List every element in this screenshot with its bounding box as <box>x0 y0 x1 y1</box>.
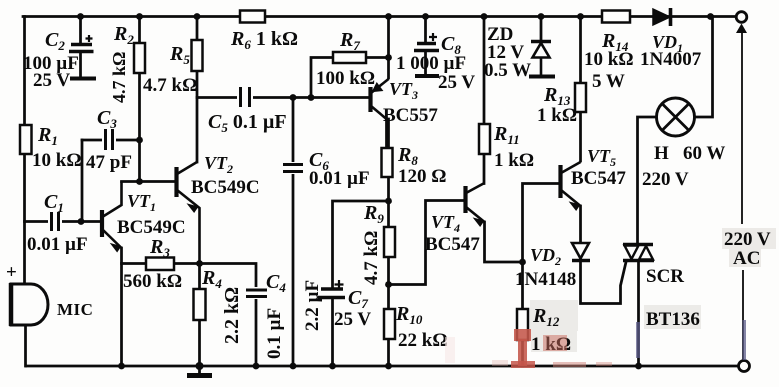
wire R11 branch <box>483 17 486 184</box>
svg-text:H 60 W: H 60 W <box>654 143 725 164</box>
wire C3 to base <box>81 140 84 222</box>
wire R4 branch <box>198 264 201 367</box>
transistor VT2 BC549C <box>177 153 260 264</box>
svg-text:25 V: 25 V <box>33 70 70 91</box>
svg-text:AC: AC <box>733 248 760 269</box>
wire left rail <box>23 17 26 285</box>
svg-text:22 kΩ: 22 kΩ <box>398 330 448 351</box>
svg-text:4.7 kΩ: 4.7 kΩ <box>109 52 129 103</box>
resistor R9 4.7k <box>361 202 395 285</box>
svg-text:1N4007: 1N4007 <box>640 49 702 70</box>
wire VT5 base <box>523 184 561 263</box>
resistor R1 10k <box>20 124 82 171</box>
wire C7 loop <box>333 201 389 366</box>
wire left rail below MIC <box>24 325 27 366</box>
svg-text:R6 1 kΩ: R6 1 kΩ <box>230 28 298 52</box>
svg-text:BC549C: BC549C <box>191 177 260 198</box>
svg-text:0.5 W: 0.5 W <box>484 60 531 81</box>
label 220V AC right <box>722 228 776 269</box>
wire zener branch <box>540 17 543 42</box>
diode VD1 1N4007 (in top rail) <box>640 8 702 70</box>
node dots <box>77 13 714 370</box>
capacitor C4 0.1uF <box>245 271 286 359</box>
microphone MIC <box>6 262 93 326</box>
terminal bottom right <box>739 361 750 372</box>
wire signal y97 <box>197 96 370 99</box>
wire R8 R9 R10 column <box>387 119 390 366</box>
svg-text:120 Ω: 120 Ω <box>398 166 446 187</box>
svg-text:0.1 µF: 0.1 µF <box>264 308 285 359</box>
wire R7 left loop <box>311 58 333 98</box>
watermark blue segments <box>636 322 640 358</box>
wire ground stub <box>198 366 201 373</box>
svg-text:560 kΩ: 560 kΩ <box>123 271 182 292</box>
svg-text:BC549C: BC549C <box>117 217 186 238</box>
svg-text:BT136: BT136 <box>646 309 700 330</box>
wire VD2 to gate <box>581 260 627 304</box>
transistor VT1 BC549C <box>102 182 186 252</box>
svg-text:220 V: 220 V <box>642 169 689 190</box>
wire top rail <box>23 15 738 18</box>
wire R3 leads <box>122 262 200 265</box>
svg-text:1 kΩ: 1 kΩ <box>537 105 577 126</box>
resistor R6 1k (in top rail) <box>230 11 298 53</box>
wire C6 branch <box>292 98 295 367</box>
svg-text:47 pF: 47 pF <box>86 152 132 173</box>
wire C4 branch <box>200 264 257 367</box>
capacitor C3 47pF <box>86 107 132 173</box>
terminal top right <box>736 12 747 33</box>
svg-text:220 V: 220 V <box>724 229 771 250</box>
wire VT4 base <box>389 201 466 285</box>
ground <box>187 373 212 378</box>
resistor R7 100k <box>316 29 375 89</box>
svg-text:4.7 kΩ: 4.7 kΩ <box>361 231 382 285</box>
resistor R14 10k 5W (in top rail) <box>584 11 634 93</box>
svg-text:BC547: BC547 <box>425 234 480 255</box>
svg-text:1 000 µF: 1 000 µF <box>396 53 466 74</box>
capacitor C6 0.01uF <box>282 149 370 189</box>
resistor R2 4.7k <box>109 23 145 103</box>
svg-text:2.2 kΩ: 2.2 kΩ <box>221 287 243 344</box>
lamp H 60W <box>642 98 725 190</box>
capacitor C1 0.01uF <box>27 191 88 255</box>
svg-text:4.7 kΩ: 4.7 kΩ <box>143 75 197 96</box>
svg-text:C5 0.1 µF: C5 0.1 µF <box>208 111 287 135</box>
wire VT5 emitter to VD2 <box>579 206 582 243</box>
wire C3 left lead <box>82 139 140 142</box>
wire C1 to VT1 base <box>25 220 103 223</box>
triac SCR BT136 <box>623 245 701 331</box>
wire R13 branch <box>579 17 582 162</box>
svg-text:10 kΩ: 10 kΩ <box>584 49 634 70</box>
resistor R3 560k <box>123 236 182 292</box>
wire lamp right loop <box>695 17 713 118</box>
svg-text:25 V: 25 V <box>438 72 475 93</box>
svg-text:100 kΩ: 100 kΩ <box>316 68 375 89</box>
wire VT1 collector to node <box>122 180 177 183</box>
watermark red marks <box>445 320 746 368</box>
wire bottom rail <box>26 365 744 368</box>
svg-text:BC557: BC557 <box>383 105 438 126</box>
wire VT3 collector <box>385 119 388 148</box>
svg-text:1N4148: 1N4148 <box>515 269 576 290</box>
svg-text:1 kΩ: 1 kΩ <box>494 150 534 171</box>
wire triac to bottom rail <box>637 261 640 367</box>
wire C8 branch <box>424 17 427 76</box>
wire AC line right <box>742 33 743 361</box>
diode VD2 1N4148 <box>515 243 590 290</box>
resistor R5 4.7k <box>143 40 203 96</box>
wire C2 branch <box>79 17 82 79</box>
capacitor C5 0.1uF <box>208 86 287 135</box>
capacitor C7 2.2uF electrolytic <box>302 280 371 331</box>
svg-text:+: + <box>6 262 17 283</box>
svg-text:10 kΩ: 10 kΩ <box>32 150 82 171</box>
svg-text:0.01 µF: 0.01 µF <box>309 168 370 189</box>
wire VT4 emitter to node <box>485 222 523 262</box>
svg-text:MIC: MIC <box>57 300 93 319</box>
svg-text:SCR: SCR <box>646 266 684 287</box>
wire R7 right lead <box>366 56 389 59</box>
capacitor C8 1000uF electrolytic <box>396 33 475 93</box>
wire VT1 emitter down <box>120 248 123 366</box>
wire R2 branch <box>138 17 141 182</box>
resistor R11 1k <box>479 123 534 171</box>
wire R12 branch <box>521 262 524 366</box>
svg-text:5 W: 5 W <box>592 71 625 92</box>
svg-text:2.2 µF: 2.2 µF <box>302 280 323 331</box>
transistor VT4 BC547 <box>425 184 485 256</box>
resistor R10 22k <box>384 303 448 351</box>
svg-text:BC547: BC547 <box>571 168 626 189</box>
wire lamp left to triac <box>638 117 657 244</box>
capacitor C2 100uF electrolytic <box>23 29 96 91</box>
wire VT3 emitter vertical <box>387 17 390 79</box>
svg-text:0.01 µF: 0.01 µF <box>27 234 88 255</box>
zener diode ZD 12V <box>484 24 555 81</box>
resistor R12 1k <box>517 300 578 355</box>
transistor VT5 BC547 <box>561 146 627 210</box>
transistor VT3 BC557 <box>371 79 439 126</box>
resistor R8 120 <box>382 144 447 187</box>
wire R5 branch <box>196 17 199 163</box>
resistor R4 2.2k <box>194 267 244 344</box>
resistor R13 1k <box>537 83 586 126</box>
svg-text:25 V: 25 V <box>334 309 371 330</box>
